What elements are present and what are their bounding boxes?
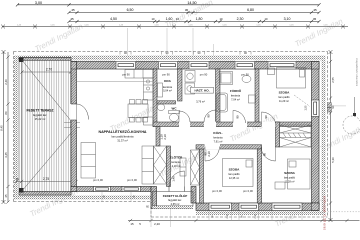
kitchen counter top: [125, 70, 153, 79]
dim row4 X ticks: [1, 25, 345, 29]
svg-text:pm 90: pm 90: [162, 73, 170, 77]
svg-text:45: 45: [313, 17, 317, 21]
entry door opening in bottom wall: [169, 186, 185, 192]
right dim ticks: [329, 50, 333, 222]
svg-text:pm 0,00: pm 0,00: [127, 178, 137, 182]
svg-text:NAPPALI-ÉTKEZŐ-KONYHA: NAPPALI-ÉTKEZŐ-KONYHA: [98, 129, 146, 134]
rotated door dims: [160, 114, 268, 182]
furdo tub: [217, 93, 228, 112]
furdo sink: [242, 76, 251, 83]
wall D hazt|furdo: [216, 69, 221, 127]
svg-text:WC: WC: [172, 107, 178, 111]
terrace corner post top: [19, 58, 24, 63]
svg-text:pm 90: pm 90: [241, 73, 249, 77]
svg-text:SZOBA: SZOBA: [279, 91, 291, 95]
dim row1 ticks: [16, 3, 321, 6]
terrace floor hatch: [22, 60, 72, 192]
wall F2 nappali|eloter: [167, 146, 171, 187]
svg-text:3,00: 3,00: [35, 1, 42, 5]
hazt door arc: [204, 110, 216, 122]
terrace door dims 2,70 / 2,40: [70, 119, 76, 128]
wc sink: [157, 104, 164, 111]
svg-text:3,76 m²: 3,76 m²: [196, 100, 205, 104]
svg-text:pm 90: pm 90: [122, 73, 130, 77]
terrace diagonal: [22, 60, 77, 128]
wall F1 stub nappali|kozl: [156, 127, 160, 147]
wc door arc: [179, 111, 190, 122]
svg-text:8,45: 8,45: [0, 125, 4, 131]
opening FURDO door: [233, 122, 247, 128]
window 90 labels above top wall: [124, 51, 247, 55]
bottom extension lines: [102, 192, 302, 227]
opening WC door: [179, 122, 190, 128]
svg-text:FÜRDŐ: FÜRDŐ: [230, 88, 242, 93]
dashed diagonal szoba top: [294, 95, 310, 107]
wall K kozl|szoba2 wardrobe nook: [276, 122, 280, 147]
svg-text:pm 0,00: pm 0,00: [93, 178, 103, 182]
left wall: [71, 62, 77, 192]
svg-text:1,50: 1,50: [305, 105, 308, 110]
svg-text:90: 90: [263, 153, 267, 156]
szoba top nightstand: [268, 68, 275, 75]
svg-text:80: 80: [4, 111, 8, 115]
svg-text:1,60: 1,60: [166, 17, 173, 21]
left dim ticks: [2, 50, 10, 204]
window W4 furdo: [235, 60, 255, 69]
szoba2 nightstand: [275, 182, 285, 189]
right wall: [312, 62, 320, 211]
szoba1 bed: [223, 159, 254, 187]
svg-text:45: 45: [70, 17, 74, 21]
svg-text:5,04 m²: 5,04 m²: [163, 89, 172, 93]
svg-text:7,91 m²: 7,91 m²: [214, 140, 223, 144]
furdo washing machine: [249, 95, 256, 103]
svg-text:lam.padló/kerámia: lam.padló/kerámia: [112, 135, 134, 139]
svg-text:10: 10: [152, 17, 155, 21]
svg-text:2,10: 2,10: [207, 151, 211, 157]
eloter shoe cabinet: [180, 158, 186, 176]
bottom wall right: [196, 203, 319, 211]
opening SZOBA top door: [262, 122, 276, 128]
kra shelf: [158, 83, 163, 97]
svg-text:90: 90: [236, 115, 240, 118]
terrace bottom slab hatched: [19, 192, 71, 196]
svg-text:kerámia: kerámia: [171, 160, 181, 164]
sofa: [81, 143, 96, 179]
window W6: [94, 187, 111, 192]
svg-text:FEDETT ELŐLÉP: FEDETT ELŐLÉP: [163, 193, 188, 198]
terrace corner post bottom: [19, 188, 24, 193]
svg-text:KÖZL.: KÖZL.: [213, 131, 222, 135]
window W7: [122, 187, 141, 192]
svg-text:14,50: 14,50: [187, 1, 196, 5]
windows bottom right wall: [209, 203, 302, 211]
svg-text:6,80: 6,80: [247, 8, 254, 12]
svg-text:45: 45: [4, 194, 8, 198]
bottom dim ticks: [129, 219, 349, 222]
svg-text:11,29 m²: 11,29 m²: [279, 99, 289, 103]
entry door arc: [169, 171, 185, 187]
wall J furdo|szoba: [255, 69, 259, 127]
nappali cabinet x-braced: [154, 146, 167, 184]
svg-text:2,10: 2,10: [163, 134, 167, 140]
wall H kozl|szoba1: [196, 145, 262, 149]
soakaway dashed circle: [343, 116, 360, 134]
svg-text:lam.padló: lam.padló: [284, 176, 296, 180]
svg-text:SZOBA: SZOBA: [229, 168, 241, 172]
svg-text:fagyálló ker.: fagyálló ker.: [168, 198, 182, 202]
nappali beam line: [77, 80, 154, 82]
svg-text:15: 15: [15, 177, 19, 181]
svg-text:lam.padló: lam.padló: [278, 95, 290, 99]
entrance alcove right pier: [191, 187, 196, 204]
hazt dryer: [185, 83, 195, 94]
wall A nappali|kamra+wc: [153, 69, 157, 127]
dim row 3 line: [69, 21, 319, 23]
szoba top bed: [277, 68, 306, 89]
micro dims below bottom windows: [104, 195, 258, 219]
svg-text:11,28 m²: 11,28 m²: [284, 180, 294, 184]
svg-text:10: 10: [265, 17, 268, 21]
furdo shower: [220, 72, 233, 85]
svg-text:3,45: 3,45: [4, 152, 8, 158]
corner cross-hatch blocks: [71, 62, 319, 211]
svg-text:90: 90: [207, 114, 211, 117]
window W1 nappali: [116, 60, 136, 69]
svg-text:KRA: KRA: [164, 79, 171, 83]
svg-text:pm 90: pm 90: [200, 73, 208, 77]
label HAZT HO: [191, 87, 214, 93]
window W8 szoba1: [209, 203, 232, 211]
dim row3 ticks: [67, 20, 320, 23]
wc toilet: [169, 111, 180, 114]
dim row2 ticks: [67, 11, 320, 14]
svg-text:31,37 m²: 31,37 m²: [117, 139, 128, 143]
extension lines from dims to wall: [128, 28, 214, 59]
svg-text:SZOBA: SZOBA: [284, 171, 296, 175]
row4 micro labels: [17, 24, 329, 26]
dim row 1 line: [18, 4, 320, 6]
svg-text:2,70: 2,70: [46, 68, 52, 72]
svg-text:25,22 m²: 25,22 m²: [35, 117, 46, 121]
window W9 szoba1: [239, 203, 259, 211]
svg-text:90: 90: [264, 115, 268, 118]
svg-text:2,20: 2,20: [154, 222, 160, 226]
wall G eloter|szoba1: [200, 145, 204, 203]
terrace door opening in left wall: [71, 104, 78, 120]
terrace slab edges: [19, 58, 71, 61]
svg-text:kerámia: kerámia: [163, 85, 173, 89]
top dimension labels: [35, 1, 317, 21]
svg-text:pm 0,00: pm 0,00: [243, 189, 253, 193]
svg-text:kerámia: kerámia: [213, 136, 223, 140]
wardrobe szoba2: [280, 125, 312, 147]
terrace door arc: [77, 104, 89, 120]
svg-text:4,10 m²: 4,10 m²: [172, 164, 181, 168]
window right wall: [312, 100, 320, 117]
dim row 4 line: [2, 26, 348, 28]
top wall: [71, 62, 319, 70]
svg-text:45: 45: [71, 8, 75, 12]
svg-text:4,50: 4,50: [110, 17, 117, 21]
hazt washer: [185, 71, 195, 83]
svg-text:2,75: 2,75: [43, 177, 49, 181]
svg-text:12,35 m²: 12,35 m²: [229, 176, 239, 180]
svg-text:30: 30: [185, 8, 189, 12]
furdo door arc: [233, 111, 246, 124]
svg-text:kerámia: kerámia: [231, 94, 241, 98]
szoba top door arc: [262, 112, 277, 127]
wall E horizontal corridor top: [153, 122, 312, 127]
room label FEDETT TERASZ: [27, 109, 54, 121]
svg-text:2,55: 2,55: [331, 77, 335, 83]
svg-text:45: 45: [313, 8, 317, 12]
svg-text:6,50: 6,50: [127, 8, 134, 12]
window W5 szoba: [268, 60, 296, 69]
szoba1 door arc: [205, 147, 220, 162]
svg-text:pm 0,00: pm 0,00: [212, 189, 222, 193]
svg-text:fagyálló ker.: fagyálló ker.: [33, 113, 48, 117]
right dim labels (rotated): [331, 77, 335, 163]
svg-text:csapadékvíz elvezetés: csapadékvíz elvezetés: [355, 58, 359, 87]
wall I szoba1|szoba2: [257, 149, 261, 203]
bottom dim labels: [130, 222, 160, 226]
szoba2 door arc: [261, 147, 276, 162]
svg-text:2,40: 2,40: [4, 79, 8, 85]
window W3 haztartasi: [189, 60, 209, 69]
svg-text:7,04 m²: 7,04 m²: [231, 98, 240, 102]
terrace bottom dim 2,75: [16, 181, 76, 183]
window width tick marks above top wall: [120, 52, 251, 55]
svg-text:1,80: 1,80: [196, 17, 203, 21]
nappali cabinet plain: [142, 146, 154, 184]
windows bottom left wall: [94, 187, 141, 192]
gutter dotted bands: [18, 56, 323, 61]
svg-text:ELŐTÉR: ELŐTÉR: [170, 155, 183, 160]
dash-dot line right of corner: [328, 211, 360, 213]
svg-text:3,10: 3,10: [284, 17, 291, 21]
eloter cabinet x-braced: [191, 150, 200, 185]
pm level labels: [93, 73, 253, 194]
opening szoba1 door: [205, 144, 221, 149]
svg-text:15: 15: [130, 222, 134, 226]
svg-text:FEDETT TERASZ: FEDETT TERASZ: [27, 109, 54, 113]
window W10 szoba2: [272, 203, 302, 211]
svg-text:lam.padló: lam.padló: [228, 172, 240, 176]
svg-text:5,30: 5,30: [331, 157, 335, 163]
opening HAZT door: [204, 122, 216, 128]
svg-text:2,30: 2,30: [237, 17, 244, 21]
svg-text:10: 10: [176, 17, 179, 21]
left dim labels (rotated): [0, 79, 8, 198]
szoba2 bed: [288, 159, 311, 189]
bottom wall left (nappali): [71, 187, 151, 192]
svg-text:1,40: 1,40: [172, 176, 176, 182]
window W2 kamra: [159, 60, 178, 69]
dining table: [128, 104, 148, 118]
wall B kamra|hazt: [178, 69, 183, 101]
dim row 2 line: [69, 12, 319, 14]
wall C kamra|wc: [157, 101, 176, 104]
svg-text:2,65 m²: 2,65 m²: [171, 202, 180, 206]
small hatched squares near right wall window: [327, 103, 331, 107]
terrace top dim 2,70: [22, 71, 71, 73]
entrance alcove left pier: [151, 187, 157, 209]
svg-text:esőv.csat. 0,33 eresz: esőv.csat. 0,33 eresz: [322, 196, 326, 230]
chairs: [130, 100, 135, 105]
svg-text:10: 10: [220, 17, 223, 21]
svg-text:HÁZT. HO.: HÁZT. HO.: [194, 88, 209, 93]
